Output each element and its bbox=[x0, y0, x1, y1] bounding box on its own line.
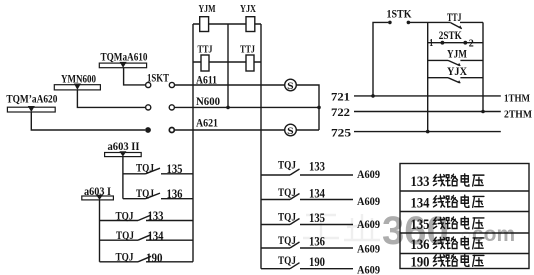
wire stem a603 I bbox=[99, 200, 101, 262]
svg-text:190: 190 bbox=[411, 255, 430, 271]
busbar a603 I bbox=[82, 184, 114, 200]
svg-text:TQJ: TQJ bbox=[278, 253, 296, 267]
wire stem N600 bbox=[77, 90, 145, 108]
svg-text:A609: A609 bbox=[357, 241, 380, 255]
svg-text:2: 2 bbox=[469, 37, 474, 49]
wire A621 bbox=[175, 129, 285, 131]
wire right rail bbox=[260, 24, 262, 269]
svg-text:190: 190 bbox=[146, 251, 163, 265]
svg-text:1: 1 bbox=[429, 37, 433, 49]
svg-text:136: 136 bbox=[309, 234, 325, 248]
relay coil YJM bbox=[199, 4, 216, 32]
svg-text:190: 190 bbox=[309, 255, 325, 269]
watermark bbox=[303, 209, 515, 253]
svg-text:133: 133 bbox=[148, 209, 164, 223]
svg-text:TQJ: TQJ bbox=[136, 186, 154, 200]
svg-text:135: 135 bbox=[167, 162, 183, 176]
busbar a603 II bbox=[105, 139, 142, 157]
node plug A621 bbox=[145, 127, 174, 133]
node junction dot 725 bbox=[426, 130, 430, 134]
contact TQJ 135 mid bbox=[261, 210, 380, 231]
contact TQJ 133 mid bbox=[261, 157, 380, 181]
wire stem a603 II bbox=[122, 157, 124, 199]
svg-text:a603 II: a603 II bbox=[108, 139, 140, 153]
svg-text:2STK: 2STK bbox=[439, 28, 463, 42]
svg-text:136: 136 bbox=[167, 187, 183, 201]
contact TQJ 190 mid bbox=[261, 253, 380, 275]
svg-text:A609: A609 bbox=[357, 167, 380, 181]
node junction dot center rail bbox=[226, 106, 230, 110]
wire center rail bbox=[227, 24, 229, 107]
table row texts bbox=[411, 174, 430, 270]
svg-text:TQJ: TQJ bbox=[278, 185, 296, 199]
svg-text:133: 133 bbox=[309, 159, 325, 173]
contact YJM bbox=[428, 46, 483, 66]
wire 1STK row bbox=[373, 22, 483, 96]
svg-text:TQJ: TQJ bbox=[116, 228, 134, 242]
wire N600 bbox=[174, 106, 319, 108]
node 134 xianlu dianya bbox=[433, 195, 483, 207]
wire 721 bbox=[354, 95, 501, 97]
svg-text:722: 722 bbox=[331, 105, 350, 119]
svg-text:TQJ: TQJ bbox=[116, 250, 134, 264]
node 133 xianlu dianya bbox=[433, 174, 483, 186]
relay coil YJX bbox=[240, 4, 256, 32]
svg-text:TQJ: TQJ bbox=[278, 157, 296, 171]
relay coil TTJ right bbox=[240, 45, 255, 72]
svg-text:TTJ: TTJ bbox=[198, 45, 213, 56]
svg-text:TQJ: TQJ bbox=[278, 233, 296, 247]
svg-text:YJX: YJX bbox=[447, 64, 467, 78]
node 135 xianlu dianya bbox=[433, 217, 483, 229]
svg-text:YJX: YJX bbox=[240, 4, 256, 15]
contact TQJ 134 mid bbox=[261, 185, 380, 208]
contact TQJ 136 bbox=[123, 186, 193, 201]
svg-text:N600: N600 bbox=[196, 94, 220, 108]
meter S2 bbox=[285, 124, 297, 137]
wire stem A610 bbox=[124, 68, 146, 85]
svg-text:136: 136 bbox=[411, 237, 430, 253]
svg-text:TQJ: TQJ bbox=[136, 160, 154, 174]
wire left vertical bbox=[427, 22, 429, 131]
wire TTJ row y62 bbox=[193, 61, 261, 63]
svg-text:S: S bbox=[287, 82, 294, 92]
svg-text:1SKT: 1SKT bbox=[147, 71, 169, 85]
svg-text:A609: A609 bbox=[357, 217, 380, 231]
svg-text:S: S bbox=[287, 127, 294, 137]
svg-text:YJM: YJM bbox=[199, 4, 216, 15]
contact TQJ 134 bbox=[100, 228, 194, 243]
svg-text:1STK: 1STK bbox=[387, 7, 413, 21]
svg-text:135: 135 bbox=[411, 217, 430, 233]
wire 725 bbox=[354, 131, 501, 133]
svg-text:TQM’aA620: TQM’aA620 bbox=[6, 92, 57, 106]
contact TQJ 190 bbox=[100, 250, 194, 265]
node junction dot 722 bbox=[481, 110, 485, 114]
svg-text:135: 135 bbox=[309, 211, 325, 225]
contact TQJ 136 mid bbox=[261, 233, 380, 256]
wire stem A620 bbox=[31, 112, 145, 130]
svg-text:YMN600: YMN600 bbox=[61, 71, 96, 85]
node 136 xianlu dianya bbox=[433, 237, 483, 249]
busbar YMN600 bbox=[54, 71, 100, 90]
wire S2 to corner bbox=[296, 129, 319, 131]
node 190 xianlu dianya bbox=[433, 254, 483, 266]
wire top box horizontal y24 bbox=[193, 23, 261, 25]
svg-text:721: 721 bbox=[331, 89, 350, 103]
svg-text:YJM: YJM bbox=[447, 46, 467, 60]
node 1STK bbox=[387, 7, 413, 25]
contact TTJ bbox=[447, 10, 462, 29]
svg-text:TQJ: TQJ bbox=[116, 208, 134, 222]
svg-text:134: 134 bbox=[411, 196, 430, 212]
contact TQJ 135 bbox=[123, 160, 193, 176]
svg-text:2THM: 2THM bbox=[504, 109, 533, 121]
svg-text:A621: A621 bbox=[196, 116, 218, 130]
svg-text:1THM: 1THM bbox=[504, 93, 531, 105]
svg-text:A609: A609 bbox=[357, 263, 380, 275]
svg-text:134: 134 bbox=[148, 229, 165, 243]
svg-text:A609: A609 bbox=[357, 194, 380, 208]
svg-text:134: 134 bbox=[309, 187, 326, 201]
node junction dot 721 bbox=[371, 94, 375, 98]
svg-text:TTJ: TTJ bbox=[447, 10, 462, 24]
node plug N600 bbox=[146, 105, 175, 110]
relay coil TTJ left bbox=[198, 45, 213, 72]
wire 722 bbox=[354, 111, 501, 113]
svg-text:725: 725 bbox=[331, 126, 351, 140]
contact 2STK bbox=[428, 28, 483, 49]
svg-text:a603 I: a603 I bbox=[84, 184, 111, 198]
wire A611 bbox=[175, 84, 285, 86]
busbar TQM'aA620 bbox=[6, 92, 57, 113]
node 1SKT plug on A611 bbox=[146, 71, 175, 88]
wire right vertical bbox=[482, 22, 484, 111]
node junction dot S-loop bbox=[317, 106, 321, 110]
svg-text:A611: A611 bbox=[196, 73, 217, 87]
contact YJX bbox=[428, 64, 483, 84]
contact TQJ 133 bbox=[100, 208, 194, 223]
busbar TQMaA610 bbox=[99, 50, 147, 68]
svg-text:TQJ: TQJ bbox=[278, 210, 296, 224]
wire S1 to corner bbox=[296, 85, 319, 130]
svg-text:TQMaA610: TQMaA610 bbox=[101, 50, 148, 64]
meter S1 bbox=[285, 79, 297, 92]
svg-text:133: 133 bbox=[411, 174, 430, 190]
wire left rail bbox=[192, 24, 194, 262]
svg-text:TTJ: TTJ bbox=[240, 45, 255, 56]
